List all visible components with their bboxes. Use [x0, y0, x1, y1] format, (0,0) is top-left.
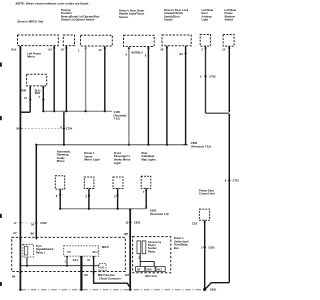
edge mark 1	[0, 63, 2, 67]
svg-text:90-1: 90-1	[93, 250, 99, 254]
svg-text:Passenger's: Passenger's	[114, 154, 130, 158]
svg-text:C18: C18	[192, 222, 197, 226]
svg-text:WHT: WHT	[35, 92, 41, 95]
label BLK/WHT	[35, 89, 41, 94]
svg-text:Box: Box	[174, 246, 179, 250]
label G502 (Terminals 1-8)	[150, 209, 169, 216]
svg-text:8: 8	[145, 54, 147, 58]
wire memory switch below bus to bus2	[63, 111, 65, 145]
connector B1 diamond	[184, 52, 187, 55]
svg-text:10: 10	[61, 48, 64, 52]
svg-text:NOTE: Wires shown without colo: NOTE: Wires shown without color codes ar…	[16, 2, 90, 6]
wire pin 11 / E9 service	[94, 256, 131, 288]
wire G14 thick ground	[80, 256, 82, 290]
label Driver's Under-dash Fuse/Relay Box	[174, 236, 189, 250]
svg-text:(N2 cont): (N2 cont)	[145, 274, 157, 278]
svg-text:B1: B1	[179, 52, 183, 56]
box Automatic Dimming Inside Mirror	[55, 176, 64, 189]
box Power Seat Control Unit	[199, 209, 209, 220]
wire mirror pin 8 to ground bus	[59, 189, 61, 209]
label Driver's Door Lock Actuator/Knob Switch/Door Switch	[164, 8, 189, 22]
svg-text:(Terminals 7-12): (Terminals 7-12)	[191, 144, 211, 148]
svg-text:B6: B6	[30, 231, 34, 235]
wire mirror pin 14	[29, 86, 31, 112]
svg-text:9f6: 9f6	[124, 232, 128, 236]
wire 1 trunk (gray)	[85, 46, 87, 111]
label Left Rear Power Window Switch	[225, 8, 237, 22]
relay wires to connector row	[139, 254, 141, 267]
wire A3 from MPCS to bus C156	[53, 46, 55, 111]
box Left Rear Door Ashtray Light	[200, 35, 210, 47]
svg-text:N10: N10	[147, 268, 152, 271]
box Driver's MPCS Unit	[18, 35, 59, 46]
svg-text:G601: G601	[210, 288, 217, 292]
wire B14 from MPCS to MICU	[19, 46, 21, 290]
box Driver's Under-dash Fuse/Relay Box	[133, 237, 171, 273]
ground distribution dash-dot line	[20, 289, 202, 291]
wire 9 handle (gray)	[128, 47, 130, 145]
svg-text:A3: A3	[48, 48, 52, 52]
wire sub box pin 1	[66, 256, 68, 266]
box Front Passenger's Vanity Mirror Light	[113, 177, 123, 189]
svg-text:Control Unit: Control Unit	[199, 192, 215, 196]
box Driver's Vanity Mirror Light	[84, 177, 94, 189]
ground bus G502	[60, 208, 146, 210]
ground dot G14 wire	[80, 289, 82, 291]
svg-text:A7: A7	[13, 231, 17, 235]
svg-text:F0: F0	[68, 250, 72, 254]
internal sub box	[64, 246, 99, 256]
ground point G601	[203, 288, 206, 291]
wire 10 from memory switch to bus C156	[65, 46, 67, 111]
svg-text:C751: C751	[233, 179, 240, 183]
svg-text:7: 7	[143, 190, 145, 194]
svg-text:B14: B14	[12, 48, 17, 52]
svg-text:8: 8	[225, 179, 227, 183]
svg-text:C801: C801	[208, 245, 215, 249]
connector 3 C702	[204, 75, 207, 78]
wire 8 handle	[147, 47, 149, 145]
svg-text:Lid Opener Switch: Lid Opener Switch	[71, 18, 95, 22]
svg-text:7-12): 7-12)	[114, 117, 120, 121]
terminal arrow on ground drop at box gap	[129, 236, 132, 238]
svg-text:N12: N12	[157, 268, 162, 271]
internal MICU line	[20, 265, 99, 267]
svg-text:2: 2	[201, 245, 203, 249]
dashed connector line C754	[22, 128, 63, 130]
connector C552 dashed tie	[22, 222, 35, 224]
label Turn Signal/Hazard Relay 1	[36, 244, 54, 254]
terminal arrows entering MICU	[19, 238, 22, 240]
svg-text:1: 1	[65, 260, 67, 264]
svg-text:G14: G14	[73, 258, 79, 262]
wire B1 door lock	[185, 46, 187, 145]
svg-text:C631: C631	[134, 221, 141, 225]
svg-text:Switch: Switch	[61, 18, 70, 22]
svg-text:Switch: Switch	[225, 18, 234, 22]
svg-text:17: 17	[14, 221, 17, 225]
label Rear Individual Map Lights	[142, 151, 157, 161]
label MICU Service Check Connector 143	[98, 273, 129, 280]
svg-text:Vanity Mirror: Vanity Mirror	[114, 158, 131, 162]
svg-text:MICU: MICU	[102, 245, 109, 249]
junction dots on bus C582	[35, 144, 37, 146]
svg-text:H9: H9	[12, 274, 16, 278]
wire vanity2 pin 2	[117, 189, 119, 209]
svg-text:E9: E9	[85, 273, 89, 277]
label Driving Position Memory Switch	[61, 8, 72, 22]
pin H9	[19, 272, 22, 274]
ground drop wire from G502 bus to ground line	[129, 209, 131, 290]
svg-text:N7: N7	[137, 268, 141, 271]
svg-text:C702: C702	[209, 74, 216, 78]
svg-text:WHT/BLU: WHT/BLU	[132, 51, 143, 54]
wire mirror 14 horizontal to B14 wire	[20, 111, 30, 113]
label C156 (Terminals 7-12)	[114, 110, 128, 120]
svg-text:3: 3	[200, 74, 202, 78]
edge mark 4	[0, 282, 2, 286]
svg-text:9: 9	[126, 53, 128, 57]
bus line C156	[43, 110, 112, 112]
svg-text:Driver's MPCS Unit: Driver's MPCS Unit	[18, 20, 44, 24]
box Driver's Door Lock Actuator/Knob Switch/Door Switch	[162, 35, 191, 46]
wire power seat to ground	[204, 220, 206, 289]
svg-text:Map Lights: Map Lights	[142, 157, 157, 161]
label Front Passenger's Vanity Mirror Light	[114, 151, 131, 165]
svg-text:10: 10	[99, 48, 102, 52]
box Driving Position Memory Switch	[63, 35, 74, 46]
connector break on window wire	[228, 111, 231, 113]
ground dot B14 wire	[19, 289, 21, 291]
wire vanity1 pin 2	[88, 189, 90, 209]
connector 2 C801	[203, 246, 206, 249]
svg-text:12: 12	[125, 221, 128, 225]
wire 10 trunk	[104, 46, 106, 111]
svg-text:1: 1	[78, 49, 80, 53]
svg-text:143: 143	[124, 273, 129, 277]
box Left Rear Power Window Switch	[223, 35, 234, 47]
label Left Rear Door Ashtray Light	[202, 8, 214, 22]
svg-text:8: 8	[56, 194, 58, 198]
svg-text:Relay: Relay	[148, 249, 156, 253]
wire window switch bottom run to ground point	[205, 283, 229, 289]
svg-text:Mirror Light: Mirror Light	[84, 158, 99, 162]
svg-text:14: 14	[24, 96, 27, 100]
svg-text:2: 2	[86, 194, 88, 198]
wire relay to internal line	[26, 257, 28, 266]
svg-text:C552: C552	[40, 221, 47, 225]
bus line C582	[36, 144, 185, 146]
box MICU	[12, 237, 126, 271]
svg-text:2: 2	[201, 47, 203, 51]
svg-text:Light: Light	[202, 18, 209, 22]
svg-text:11: 11	[87, 258, 90, 262]
wire bus C582 down to MICU	[35, 145, 37, 238]
box M1 inside MICU	[99, 264, 106, 271]
box Trunk Lid Opener/Fuel Lid Opener Switch	[81, 35, 113, 46]
label C582 (Terminals 7-12)	[191, 141, 211, 148]
svg-text:Relay 1: Relay 1	[36, 250, 46, 254]
svg-text:Mirror: Mirror	[57, 159, 65, 163]
svg-text:14: 14	[222, 47, 225, 51]
wire 14 window switch	[228, 46, 230, 112]
svg-text:2: 2	[114, 194, 116, 198]
connector 12 C631	[129, 221, 132, 224]
svg-text:PUR: PUR	[21, 90, 26, 93]
box Turn Signal/Hazard Relay 1	[23, 244, 34, 257]
svg-text:(Terminals 1-8): (Terminals 1-8)	[150, 212, 169, 216]
svg-text:18: 18	[16, 127, 19, 131]
svg-text:40: 40	[160, 48, 163, 52]
label Automatic Dimming Inside Mirror	[57, 149, 71, 163]
wire mirror pin 3	[42, 86, 44, 111]
wire map lights pin 7	[145, 188, 147, 208]
edge mark 2	[0, 116, 2, 120]
label Trunk Lid Opener/Fuel Lid Opener Switch	[71, 14, 100, 21]
label Driver's Vanity Mirror Light	[84, 151, 99, 161]
connector 3 diamond C754	[63, 127, 66, 130]
svg-text:C754: C754	[66, 127, 73, 131]
svg-text:3: 3	[38, 95, 40, 99]
svg-text:Sensor: Sensor	[119, 15, 128, 19]
relay Accessory Power Socket Relay	[137, 241, 141, 254]
junction dots on bus C156	[42, 110, 44, 112]
label Power Seat Control Unit	[199, 188, 215, 195]
svg-text:1A1: 1A1	[100, 267, 105, 270]
connector 8 C751	[228, 179, 231, 182]
connector row N7 N10 N12	[136, 266, 145, 271]
svg-text:Light: Light	[114, 161, 121, 165]
box Left Power Mirror	[27, 51, 41, 58]
svg-text:Check Connector: Check Connector	[99, 277, 121, 281]
svg-text:Mirror: Mirror	[27, 55, 35, 59]
connector 18 diamond	[19, 127, 22, 130]
box Rear Individual Map Lights	[141, 176, 151, 188]
box Driver's Door Outer Handle Light/Touch Sensor	[124, 35, 155, 46]
wire ashtray horizontal to window wire	[206, 112, 230, 114]
label Driver's Door Outer Handle Light/Touch Sensor	[119, 8, 145, 18]
svg-text:Front: Front	[114, 151, 121, 155]
wire 40 door lock	[166, 46, 168, 145]
svg-text:Switch: Switch	[164, 18, 173, 22]
edge mark 3	[0, 214, 2, 218]
wire 2 ashtray	[205, 46, 207, 113]
